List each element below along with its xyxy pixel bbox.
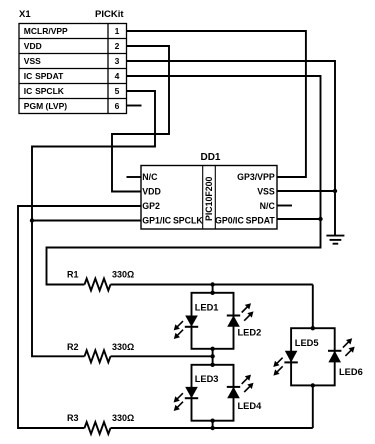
svg-text:VDD: VDD bbox=[142, 187, 161, 197]
junction dot ICSPDAT/GP0 bbox=[318, 217, 322, 221]
svg-text:PIC10F200: PIC10F200 bbox=[204, 176, 214, 221]
svg-text:330Ω: 330Ω bbox=[112, 270, 134, 280]
svg-text:R1: R1 bbox=[67, 270, 79, 280]
wire frame LED5/LED6 pair bbox=[291, 328, 335, 385]
svg-text:PGM (LVP): PGM (LVP) bbox=[24, 101, 67, 111]
svg-text:VDD: VDD bbox=[24, 41, 42, 51]
svg-text:GP1/ICSPCLK: GP1/ICSPCLK bbox=[142, 216, 203, 226]
LED2 bbox=[227, 303, 254, 327]
svg-text:DD1: DD1 bbox=[200, 152, 220, 163]
wire GP1 node to resistor R2 bbox=[32, 221, 85, 357]
svg-text:GP3/VPP: GP3/VPP bbox=[237, 172, 275, 182]
wire R3 bottom rail bbox=[111, 427, 313, 429]
svg-text:330Ω: 330Ω bbox=[112, 342, 134, 352]
wire tap R1 node to LED1/LED2 frame bbox=[212, 285, 214, 293]
svg-text:LED3: LED3 bbox=[195, 374, 219, 384]
svg-text:2: 2 bbox=[115, 41, 120, 51]
svg-text:3: 3 bbox=[115, 56, 120, 66]
wire tap LED5/LED6 frame to R3 rail bbox=[312, 385, 314, 428]
svg-text:LED4: LED4 bbox=[238, 401, 263, 411]
svg-text:N/C: N/C bbox=[142, 172, 158, 182]
wire frame LED1/LED2 pair bbox=[192, 293, 234, 349]
junction dot LED3/LED4 bottom rail bbox=[210, 419, 214, 423]
wire R1 to LED nodes bbox=[111, 284, 313, 286]
svg-text:R3: R3 bbox=[67, 413, 79, 423]
junction dot VSS net bbox=[333, 189, 337, 193]
wire pin1 MCLR/VPP to DD1 GP3/VPP bbox=[127, 31, 306, 177]
wire pin6 PGM (LVP) stub bbox=[127, 105, 142, 107]
N/C stub left bbox=[127, 176, 142, 178]
LED1 bbox=[174, 316, 199, 340]
LED5 bbox=[273, 351, 298, 376]
IC DD1 outline bbox=[141, 166, 277, 230]
wire R2 to LED1/LED3 node bbox=[111, 355, 213, 357]
junction dot R1/LED top bbox=[210, 282, 214, 286]
resistor R2 bbox=[85, 350, 111, 362]
wire tap LED3/LED4 frame to R3 rail bbox=[212, 421, 214, 428]
LED6 bbox=[328, 338, 355, 362]
junction dot LED1/LED2 bottom rail bbox=[210, 347, 214, 351]
wire GP0 node to resistor R1 bbox=[47, 219, 321, 285]
junction dot R3 rail bbox=[210, 426, 214, 430]
svg-text:LED2: LED2 bbox=[238, 328, 262, 338]
wire pin3 VSS to ground rail bbox=[127, 61, 336, 236]
svg-text:5: 5 bbox=[115, 86, 120, 96]
LED3 bbox=[174, 387, 199, 411]
svg-text:1: 1 bbox=[115, 26, 120, 36]
wire tap R2 node to LED3/LED4 frame bbox=[212, 356, 214, 365]
resistor R3 bbox=[85, 422, 111, 434]
svg-text:VSS: VSS bbox=[257, 187, 275, 197]
wire GP1 node to DD1 GP1/ICSPCLK bbox=[32, 220, 141, 222]
junction dot LED1/LED2 top rail bbox=[210, 291, 214, 295]
svg-text:4: 4 bbox=[115, 71, 120, 81]
svg-text:X1: X1 bbox=[19, 9, 31, 20]
LED4 bbox=[227, 375, 254, 399]
wire pin5 ICSPCLK down to GP1 node bbox=[32, 91, 155, 221]
junction dot R2 node bbox=[210, 354, 214, 358]
ground bbox=[326, 236, 344, 244]
junction dot ICSPCLK/GP1 bbox=[30, 218, 34, 222]
svg-text:LED6: LED6 bbox=[339, 367, 363, 377]
junction dot LED3/LED4 top rail bbox=[210, 363, 214, 367]
svg-text:LED5: LED5 bbox=[295, 338, 319, 348]
wire frame LED3/LED4 pair bbox=[192, 365, 234, 421]
junction dot LED5/LED6 top rail bbox=[311, 326, 315, 330]
svg-text:GP0/ICSPDAT: GP0/ICSPDAT bbox=[215, 216, 275, 226]
junction dot LED5/LED6 bottom rail bbox=[311, 383, 315, 387]
wire pin4 ICSPDAT down to GP0 node bbox=[127, 76, 321, 219]
wire DD1 VSS to ground rail bbox=[277, 190, 335, 192]
svg-text:330Ω: 330Ω bbox=[112, 413, 134, 423]
wire tap LED1/LED2 frame to R2 node bbox=[212, 349, 214, 357]
svg-text:VSS: VSS bbox=[24, 56, 41, 66]
svg-text:LED1: LED1 bbox=[195, 303, 219, 313]
N/C stub right bbox=[277, 205, 292, 207]
svg-text:N/C: N/C bbox=[260, 201, 276, 211]
svg-text:PICKit: PICKit bbox=[95, 9, 124, 20]
resistor R1 bbox=[85, 279, 111, 291]
svg-text:GP2: GP2 bbox=[142, 201, 160, 211]
svg-text:6: 6 bbox=[115, 101, 120, 111]
wire tap R1 rail to LED5/LED6 frame bbox=[312, 285, 314, 329]
wire pin2 VDD to DD1 VDD bbox=[112, 46, 169, 192]
wire GP0 node to DD1 GP0/ICSPDAT bbox=[277, 218, 321, 220]
svg-text:ICSPDAT: ICSPDAT bbox=[24, 71, 64, 81]
wire DD1 GP2 to resistor R3 bbox=[18, 206, 141, 428]
svg-text:ICSPCLK: ICSPCLK bbox=[24, 86, 65, 96]
svg-text:MCLR/VPP: MCLR/VPP bbox=[24, 26, 68, 36]
svg-text:R2: R2 bbox=[67, 342, 79, 352]
connector X1 pin table bbox=[19, 24, 127, 114]
